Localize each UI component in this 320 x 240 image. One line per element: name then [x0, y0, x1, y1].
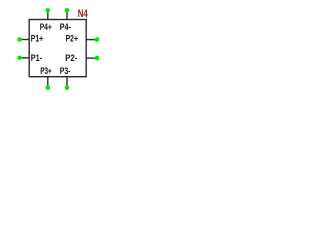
pin P2+ wire (right upper) [86, 39, 95, 41]
pin P1+ terminal dot [17, 37, 22, 42]
svg-text:P2-: P2- [65, 53, 77, 64]
pin P1+ wire (left upper) [21, 39, 29, 41]
4-port network N4 body [29, 20, 86, 77]
pin P4+ wire (top left) [47, 12, 49, 20]
svg-text:N4: N4 [78, 8, 88, 20]
pin P2- terminal dot [95, 56, 100, 61]
svg-text:P3-: P3- [60, 66, 71, 77]
svg-text:P1+: P1+ [31, 34, 44, 45]
pin P3+ terminal dot [46, 85, 51, 90]
pin P1- wire (left lower) [21, 57, 29, 59]
pin P2- wire (right lower) [86, 57, 95, 59]
pin P4- wire (top right) [66, 11, 68, 19]
pin P1- terminal dot [17, 56, 22, 61]
svg-text:P2+: P2+ [66, 34, 79, 45]
pin P2+ terminal dot [95, 37, 100, 42]
pin P4- terminal dot [65, 8, 70, 13]
svg-text:P4+: P4+ [40, 22, 52, 33]
pin P3+ wire (bottom left) [47, 77, 49, 87]
pin P3- terminal dot [65, 85, 70, 90]
svg-text:P1-: P1- [31, 53, 42, 64]
svg-text:P4-: P4- [60, 22, 71, 33]
pin P3- wire (bottom right) [66, 77, 68, 87]
pin P4+ terminal dot [46, 8, 51, 13]
svg-text:P3+: P3+ [40, 66, 52, 77]
